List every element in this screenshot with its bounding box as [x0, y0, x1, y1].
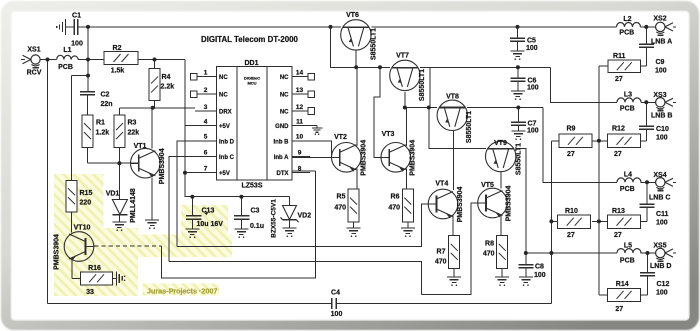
- junction node DRX R4: [151, 106, 155, 110]
- diode VD1 PMLL4148: [112, 200, 127, 223]
- svg-text:22n: 22n: [101, 101, 113, 108]
- svg-text:100: 100: [526, 45, 538, 52]
- wire: pin 5 Inb D riser to lower bus A: [177, 141, 195, 247]
- svg-text:27: 27: [614, 232, 622, 239]
- resistor R14 27: [608, 288, 641, 301]
- wire: VT3 emitter to R6: [405, 169, 407, 190]
- ground below C3: [234, 228, 248, 230]
- wire: C1 left to ground: [66, 26, 74, 28]
- svg-text:NC: NC: [280, 75, 289, 81]
- wire: node after L1 branch left at y=75.6 down to R15: [72, 76, 89, 181]
- svg-text:100: 100: [331, 311, 343, 318]
- svg-text:27: 27: [614, 151, 622, 158]
- wire: bottom return line with C4 to right riser: [48, 302, 552, 304]
- wire: top rail L2 row to XS2: [641, 26, 656, 28]
- junction node XS3: [644, 100, 648, 104]
- resistor R10 27: [558, 215, 591, 228]
- svg-text:470: 470: [334, 205, 346, 212]
- wire: +5V bus under DD1 to C13 C3 VD2: [185, 196, 290, 198]
- svg-text:XS2: XS2: [653, 16, 666, 23]
- DD1 pin 13 NC: [280, 87, 315, 99]
- wire: XS1 to L1 input row: [40, 59, 57, 61]
- ground below VD2: [283, 227, 297, 229]
- resistor R9 27: [559, 134, 592, 147]
- svg-text:VT4: VT4: [435, 181, 448, 188]
- ground below C8: [519, 276, 533, 278]
- svg-text:VT1: VT1: [134, 143, 147, 150]
- DD1 pin 14 NC: [280, 70, 315, 82]
- svg-text:PMBS3904: PMBS3904: [360, 140, 367, 176]
- svg-text:C9: C9: [656, 59, 665, 66]
- svg-text:PCB: PCB: [620, 106, 635, 113]
- resistor R2 1.5k: [104, 52, 138, 65]
- DD1 pin 8 DTX: [277, 166, 311, 178]
- highlight region behind author note: [143, 284, 220, 296]
- junction node rail VT6: [329, 25, 333, 29]
- wire: top supply rail from C1 to L2: [77, 26, 616, 28]
- capacitor C7 100: [511, 121, 526, 123]
- svg-text:LNB D: LNB D: [650, 263, 671, 270]
- svg-text:220: 220: [80, 200, 92, 207]
- svg-text:C11: C11: [656, 211, 669, 218]
- wire: VD1 stub from base wire: [118, 163, 120, 199]
- wire: L5 to XS5: [641, 252, 656, 254]
- capacitor C2 22n: [80, 92, 95, 95]
- wire: R3 top to DRX line: [118, 108, 120, 115]
- ground below C7: [511, 130, 525, 132]
- svg-text:R15: R15: [80, 190, 93, 197]
- inductor L4 PCB: [617, 178, 641, 182]
- ground at DD1 pin 11: [312, 126, 323, 135]
- transistor VT9 S8550LT1: [486, 141, 516, 171]
- wire: drop from VT8 rail node to VT9 row: [429, 108, 486, 149]
- wire: left vertical link R9 to R10 to L5 row to bottom return: [550, 141, 552, 303]
- junction node R2 R4: [153, 58, 157, 62]
- wire: L1 to R2 and node branches: [78, 59, 104, 61]
- wire: VT3 base riser from VT7 node: [374, 67, 382, 157]
- svg-text:22k: 22k: [128, 130, 140, 137]
- wire: VT9 bottom to VT5 collector: [500, 172, 502, 189]
- svg-text:C4: C4: [331, 290, 340, 297]
- junction node XS4: [645, 180, 649, 184]
- svg-text:1.2k: 1.2k: [96, 130, 110, 137]
- junction node VT8 feed: [427, 106, 431, 110]
- svg-text:GND: GND: [275, 124, 289, 130]
- svg-text:S8550LT1: S8550LT1: [466, 111, 473, 143]
- wire: VT4 emitter to R7: [452, 216, 454, 236]
- ground below R8: [495, 276, 509, 278]
- svg-text:27: 27: [615, 306, 623, 313]
- wire: VT6 bottom to rail and VT2 collector drop: [355, 50, 358, 146]
- wire: C8 stub: [525, 253, 527, 265]
- capacitor C3 0.1u: [234, 216, 250, 229]
- svg-text:L4: L4: [624, 172, 632, 179]
- svg-text:PMBS3904: PMBS3904: [457, 186, 464, 222]
- transistor VT2 PMBS3904: [332, 143, 362, 173]
- junction node +5V pins: [183, 171, 187, 175]
- resistor R16 33: [80, 272, 112, 285]
- svg-text:7: 7: [204, 166, 208, 173]
- svg-text:VD1: VD1: [106, 191, 120, 198]
- DD1 pin 9 Inb A: [274, 149, 310, 161]
- transistor VT4 PMBS3904: [428, 189, 458, 219]
- svg-text:9: 9: [298, 149, 302, 156]
- junction node R9 R12: [597, 139, 601, 143]
- wire: R16 right to side ground: [113, 277, 117, 279]
- junction node C13: [190, 195, 194, 199]
- svg-text:PCB: PCB: [620, 257, 635, 264]
- DD1 pin 1 NC: [190, 70, 228, 82]
- junction node C3: [239, 195, 243, 199]
- wire: R3 bottom stub: [118, 147, 120, 163]
- wire: pin 7 +5V link to bus: [185, 172, 195, 174]
- svg-text:VT7: VT7: [396, 53, 409, 60]
- wire: C5 stub: [517, 27, 519, 38]
- wire: C1 node down to L1 node and to C2: [87, 27, 89, 92]
- ground below C5: [511, 50, 525, 52]
- wire: +5V feed down DD1 left side: [184, 60, 186, 197]
- side ground right of R16: [117, 271, 126, 285]
- svg-text:L3: L3: [624, 92, 632, 99]
- wire: drop from VT7 rail to VT8 row: [430, 67, 437, 107]
- capacitor C8 100: [518, 264, 533, 266]
- svg-text:R7: R7: [437, 249, 446, 256]
- resistor R1 1.2k: [82, 115, 93, 148]
- svg-text:100: 100: [656, 135, 668, 142]
- DD1 pin 7 +5V: [195, 166, 230, 178]
- highlight region around R15 VT10 R16 (modification area): [54, 174, 232, 296]
- svg-text:1.5k: 1.5k: [111, 68, 125, 75]
- wire: pin 4 +5V link: [185, 125, 195, 127]
- svg-text:5: 5: [204, 134, 208, 141]
- wire: R14 left link: [599, 294, 608, 296]
- svg-text:2: 2: [204, 87, 208, 94]
- capacitor C9 100: [639, 43, 654, 45]
- svg-text:VT8: VT8: [446, 94, 459, 101]
- wire: R2 to R4 junction to +5V feed: [138, 60, 185, 69]
- wire: right-side vertical link R11 to R9 R12 to R10 R13 to R14: [598, 66, 600, 295]
- svg-text:DIGITAL Telecom DT-2000: DIGITAL Telecom DT-2000: [201, 35, 299, 44]
- DD1 pin 2 NC: [190, 87, 228, 99]
- wire: XS5 node down through C12 to R14 right: [641, 253, 648, 295]
- svg-text:27: 27: [615, 76, 623, 83]
- ground below VD1: [112, 221, 126, 223]
- wire: R9 R12 row: [551, 140, 607, 142]
- svg-text:S8550LT1: S8550LT1: [371, 28, 378, 60]
- svg-text:XS4: XS4: [653, 172, 666, 179]
- svg-text:R10: R10: [565, 208, 578, 215]
- DD1 pin 11 GND: [275, 119, 303, 131]
- svg-text:C7: C7: [528, 121, 537, 128]
- wire: VT8 bottom through to VT4 collector: [452, 131, 454, 190]
- svg-text:NC: NC: [280, 109, 289, 115]
- svg-text:3: 3: [204, 104, 208, 111]
- svg-text:C5: C5: [527, 38, 536, 45]
- junction node R10 left: [549, 219, 553, 223]
- junction node L1 out: [86, 58, 90, 62]
- wire: C7 stub: [517, 108, 519, 123]
- wire: L5 row from C8 node to L5: [526, 252, 617, 254]
- transistor VT6 S8550LT1: [341, 20, 371, 50]
- inductor L3 PCB: [617, 98, 641, 102]
- svg-text:DD1: DD1: [244, 60, 258, 67]
- svg-text:VT10: VT10: [74, 225, 91, 232]
- ground below C13: [185, 228, 199, 230]
- resistor R8 470: [497, 235, 508, 268]
- resistor R6 470: [402, 189, 413, 222]
- wire: bottom jog to VT5 base riser: [422, 203, 479, 295]
- junction node C5: [516, 25, 520, 29]
- svg-text:LZ53S: LZ53S: [241, 183, 262, 190]
- svg-text:PCB: PCB: [619, 30, 634, 37]
- junction node C8: [524, 251, 528, 255]
- resistor R12 27: [608, 134, 641, 147]
- wire: XS3 node down through C10 to R12 right: [640, 102, 646, 141]
- svg-text:NC: NC: [219, 75, 228, 81]
- wire: VT9 rail right to LNB D feed: [516, 149, 526, 254]
- svg-text:27: 27: [567, 151, 575, 158]
- wire: C6 stub: [517, 67, 519, 78]
- wire: lower bus B to corner down: [169, 262, 422, 295]
- connector XS1: [21, 55, 40, 68]
- inductor L2 PCB: [617, 22, 641, 26]
- svg-text:L1: L1: [63, 47, 71, 54]
- svg-text:L2: L2: [623, 16, 631, 23]
- svg-text:2.2k: 2.2k: [161, 84, 175, 91]
- IC DD1 LZ53S: [217, 67, 293, 180]
- zener diode VD2 BZX55-C5V1: [281, 206, 299, 229]
- wire: VT10 emitter down to R16: [72, 260, 80, 279]
- junction node L5 row left: [549, 251, 553, 255]
- wire: R11 left to vertical link: [599, 65, 608, 67]
- transistor VT10 PMBS3904 mirrored: [64, 232, 94, 262]
- ground below C6: [511, 90, 525, 92]
- wire: R6 bottom to ground: [407, 222, 409, 228]
- svg-text:PMLL4148: PMLL4148: [130, 188, 137, 223]
- svg-text:R2: R2: [113, 45, 122, 52]
- DD1 pin 3 DRX: [195, 104, 232, 116]
- connector XS2 LNB A: [656, 22, 676, 35]
- ground below VT1: [145, 219, 159, 221]
- svg-text:R3: R3: [128, 120, 137, 127]
- capacitor C11 100: [640, 203, 655, 205]
- svg-text:C1: C1: [72, 13, 81, 20]
- junction node C1 top rail: [86, 25, 90, 29]
- wire: VT8 rail left start at VT7 bottom: [405, 92, 430, 108]
- svg-text:27: 27: [567, 232, 575, 239]
- DD1 pin 6 Inb C: [195, 149, 235, 161]
- svg-text:0.1u: 0.1u: [250, 223, 264, 230]
- svg-text:100: 100: [527, 85, 539, 92]
- svg-text:VT2: VT2: [334, 134, 347, 141]
- svg-text:DTX: DTX: [277, 171, 289, 177]
- capacitor C4 100: [332, 298, 336, 309]
- connector XS3 LNB B: [656, 98, 676, 111]
- junction node R3 base: [117, 161, 121, 165]
- svg-text:13: 13: [296, 87, 304, 94]
- wire: pin 9 Inb A to VT2 base: [292, 156, 340, 158]
- svg-text:10: 10: [296, 134, 304, 141]
- wire: L3 to XS3: [641, 101, 656, 103]
- wire: pin 10 Inb B to VT2 base corner: [292, 141, 332, 157]
- svg-text:470: 470: [388, 205, 400, 212]
- resistor R13 27: [608, 215, 641, 228]
- svg-text:S8550LT1: S8550LT1: [419, 69, 426, 101]
- svg-text:R5: R5: [337, 194, 346, 201]
- ground left of C1: [57, 19, 66, 35]
- wire: C3 stub: [240, 197, 242, 215]
- svg-text:VT6: VT6: [346, 12, 359, 19]
- DD1 pin 4 +5V: [195, 119, 230, 131]
- wire: VT2 collector to VT6 handled above ; VT2 emitter to R5: [356, 169, 358, 190]
- svg-text:LNB A: LNB A: [651, 39, 672, 46]
- svg-text:VT3: VT3: [382, 131, 395, 138]
- svg-text:C8: C8: [535, 264, 544, 271]
- transistor VT3 PMBS3904: [381, 143, 411, 173]
- svg-text:C2: C2: [101, 92, 110, 99]
- wire: R1 bottom to VT1 base: [88, 147, 131, 163]
- svg-text:BZX55-C5V1: BZX55-C5V1: [271, 199, 278, 238]
- svg-text:VT9: VT9: [494, 140, 507, 147]
- resistor R5 470: [348, 189, 359, 222]
- wire: VT5 emitter to R8: [500, 215, 502, 235]
- svg-text:XS3: XS3: [653, 92, 666, 99]
- wire: rail drop to VT7 row: [331, 27, 390, 67]
- svg-text:C3: C3: [251, 208, 260, 215]
- svg-text:R6: R6: [391, 194, 400, 201]
- svg-text:12: 12: [296, 104, 304, 111]
- junction node VT7 feed: [378, 65, 382, 69]
- capacitor C10 100: [639, 125, 654, 127]
- connector XS5 LNB D: [656, 248, 676, 261]
- svg-text:1: 1: [204, 70, 208, 77]
- svg-text:PMBS3904: PMBS3904: [506, 185, 513, 221]
- transistor VT7 S8550LT1: [390, 60, 420, 90]
- wire: pin 11 GND stub: [292, 125, 317, 127]
- wire: C2 to R1: [87, 95, 89, 115]
- svg-text:VD2: VD2: [298, 213, 312, 220]
- wire: XS1 node down left side to bottom return line: [47, 60, 49, 304]
- wire: C13 stub: [191, 197, 193, 215]
- svg-text:LNB B: LNB B: [651, 113, 672, 120]
- DD1 pin 12 NC: [280, 104, 315, 116]
- wire: VD2 stub: [289, 197, 291, 205]
- svg-text:XS1: XS1: [27, 47, 40, 54]
- wire: XS2 node down through C9 to R11: [641, 27, 647, 66]
- wire: XS4 node down through C11 to R13 right: [640, 182, 647, 221]
- svg-text:+5V: +5V: [219, 171, 230, 177]
- svg-text:R4: R4: [162, 74, 171, 81]
- wire: modification link corner down to DTX return: [162, 171, 316, 278]
- wire: VT8 rail right to C7 and LNB C feed: [467, 107, 543, 109]
- svg-text:R9: R9: [567, 126, 576, 133]
- svg-text:R12: R12: [612, 126, 625, 133]
- junction node R10 R13: [597, 219, 601, 223]
- svg-text:470: 470: [435, 259, 447, 266]
- wire: R10 R13 row: [551, 220, 607, 222]
- svg-text:RCV: RCV: [27, 70, 42, 77]
- svg-text:100: 100: [655, 67, 667, 74]
- transistor VT8 S8550LT1: [437, 100, 467, 130]
- wire: R5 bottom to ground: [353, 222, 355, 228]
- ground below R7: [447, 276, 461, 278]
- resistor R3 22k: [114, 115, 125, 148]
- capacitor C1 100: [74, 19, 77, 35]
- capacitor C12 100: [640, 272, 655, 274]
- wire: LNB C feed down to L4 row: [543, 108, 617, 183]
- wire: VT10 base dashed modification link: [94, 245, 161, 247]
- svg-text:L5: L5: [624, 243, 632, 250]
- svg-text:C13: C13: [202, 208, 215, 215]
- svg-text:LNB C: LNB C: [649, 195, 670, 202]
- svg-text:470: 470: [483, 251, 495, 258]
- svg-text:6: 6: [204, 149, 208, 156]
- transistor VT1 PMBS3904: [131, 148, 161, 178]
- svg-text:100: 100: [656, 290, 668, 297]
- svg-text:14: 14: [296, 70, 304, 77]
- svg-text:C10: C10: [656, 126, 669, 133]
- junction node C7: [516, 106, 520, 110]
- wire: VT7 rail to LNB B feed corner: [430, 67, 617, 102]
- svg-text:8: 8: [298, 166, 302, 173]
- svg-text:+5V: +5V: [219, 124, 230, 130]
- wire: R15 bottom to VT10 collector: [71, 212, 73, 232]
- svg-text:C6: C6: [528, 78, 537, 85]
- svg-text:XS5: XS5: [653, 243, 666, 250]
- DD1 pin 10 Inb B: [274, 134, 311, 146]
- svg-text:100: 100: [71, 41, 83, 48]
- svg-text:MCU: MCU: [247, 81, 256, 86]
- svg-text:Juras-Projects ·2007: Juras-Projects ·2007: [147, 287, 217, 296]
- svg-text:VT5: VT5: [481, 182, 494, 189]
- svg-text:R14: R14: [616, 281, 629, 288]
- svg-text:DRX: DRX: [219, 109, 232, 115]
- junction node XS2: [644, 25, 648, 29]
- wire: L4 to XS4: [641, 181, 656, 183]
- ground below R5: [347, 227, 361, 229]
- highlight region around C13: [181, 205, 228, 242]
- svg-text:Inb A: Inb A: [274, 155, 289, 161]
- wire: DRX net R3 R4 VT1 collector to pin 3: [119, 100, 195, 148]
- junction node C6: [516, 65, 520, 69]
- svg-text:R8: R8: [485, 241, 494, 248]
- resistor R11 27: [608, 60, 641, 73]
- resistor R7 470: [449, 235, 460, 268]
- svg-text:PMBS3904: PMBS3904: [410, 140, 417, 176]
- svg-text:100: 100: [527, 128, 539, 135]
- transistor VT5 PMBS3904: [478, 188, 508, 218]
- junction node VT7 bottom rail: [403, 106, 407, 110]
- resistor R15 220: [66, 180, 77, 212]
- capacitor C13 10u 16V electrolytic: [186, 212, 209, 230]
- svg-text:Inb B: Inb B: [274, 139, 290, 145]
- svg-text:PCB: PCB: [620, 186, 635, 193]
- ground below R6: [401, 227, 415, 229]
- wire: R8 bottom to ground: [501, 268, 503, 277]
- svg-text:PCB: PCB: [58, 64, 73, 71]
- junction node XS1: [46, 58, 50, 62]
- wire: lower bus A to VT4 base riser: [177, 204, 428, 247]
- capacitor C5 100: [510, 37, 525, 39]
- svg-text:C12: C12: [657, 281, 670, 288]
- svg-text:4: 4: [204, 119, 208, 126]
- svg-text:R1: R1: [96, 120, 105, 127]
- wire: R7 bottom to ground: [453, 268, 455, 277]
- svg-text:10u 16V: 10u 16V: [197, 221, 224, 228]
- DD1 pin 5 Inb D: [195, 134, 235, 146]
- inductor L1 PCB: [57, 55, 78, 59]
- svg-text:100: 100: [656, 220, 668, 227]
